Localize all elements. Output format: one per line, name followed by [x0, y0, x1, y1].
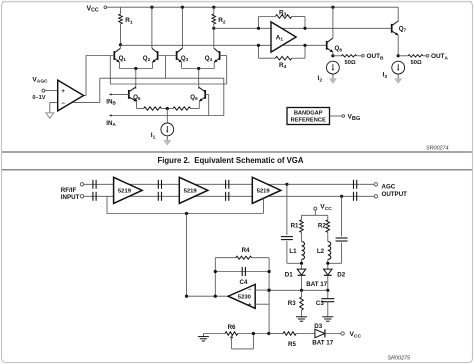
- svg-text:L1: L1: [289, 248, 297, 255]
- svg-text:5230: 5230: [238, 295, 252, 301]
- svg-text:D2: D2: [337, 271, 345, 278]
- svg-text:R2: R2: [318, 223, 326, 230]
- svg-text:−: −: [248, 287, 251, 293]
- svg-text:5219: 5219: [257, 189, 271, 195]
- svg-text:+: +: [61, 89, 65, 95]
- svg-text:RF/IF: RF/IF: [61, 187, 77, 194]
- svg-text:+: +: [248, 302, 251, 308]
- svg-text:AGC: AGC: [382, 184, 396, 191]
- svg-text:R5: R5: [288, 341, 296, 348]
- svg-text:REFERENCE: REFERENCE: [291, 117, 326, 123]
- svg-text:OUTPUT: OUTPUT: [382, 191, 408, 198]
- svg-text:R6: R6: [228, 324, 236, 331]
- svg-text:C4: C4: [240, 279, 248, 286]
- svg-text:5219: 5219: [118, 189, 132, 195]
- svg-text:SR00275: SR00275: [388, 356, 411, 362]
- svg-text:SR00274: SR00274: [426, 146, 448, 152]
- svg-text:L2: L2: [317, 248, 325, 255]
- svg-text:BANDGAP: BANDGAP: [294, 111, 323, 117]
- svg-text:−: −: [61, 101, 65, 107]
- svg-text:50Ω: 50Ω: [411, 60, 422, 66]
- svg-text:BAT 17: BAT 17: [306, 281, 327, 288]
- svg-text:R3: R3: [288, 300, 296, 307]
- svg-text:D3: D3: [314, 323, 322, 330]
- svg-text:C3: C3: [316, 300, 324, 307]
- svg-text:BAT 17: BAT 17: [312, 340, 333, 347]
- svg-text:Figure 2. Equivalent Schemati: Figure 2. Equivalent Schematic of VGA: [157, 156, 303, 165]
- svg-text:0–1V: 0–1V: [32, 95, 45, 101]
- svg-text:VCC: VCC: [87, 5, 99, 13]
- svg-text:R4: R4: [242, 247, 250, 254]
- svg-text:R1: R1: [291, 223, 299, 230]
- svg-text:50Ω: 50Ω: [345, 60, 356, 66]
- svg-text:INPUT: INPUT: [61, 194, 80, 201]
- svg-text:D1: D1: [285, 271, 293, 278]
- svg-text:5219: 5219: [184, 189, 198, 195]
